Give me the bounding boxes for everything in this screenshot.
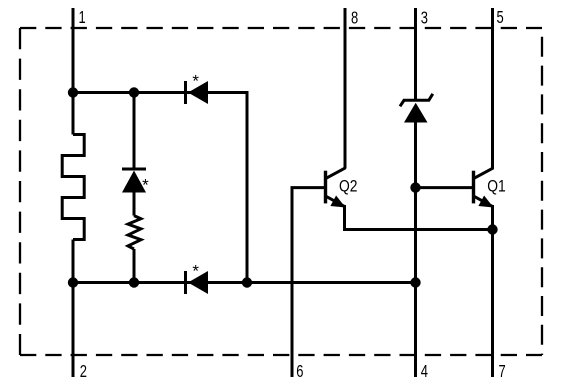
diode D3 (bottom, pointing left): [186, 271, 209, 294]
junction dot: middle branch/top bus: [129, 87, 139, 97]
transistor Q2: [326, 168, 346, 208]
pin 5 lead / Q1 collector: [491, 8, 494, 169]
wire: Q1 base to pin 3/4 line: [416, 186, 474, 189]
svg-text:1: 1: [79, 8, 86, 28]
pin 1 lead: [72, 8, 75, 135]
resistor (square-wave symbol, left branch): [62, 135, 84, 240]
diode D2 (pointing up): [122, 169, 146, 193]
junction dot: middle branch/bottom bus: [129, 277, 139, 287]
junction dot: right branch/bottom bus: [242, 277, 252, 287]
svg-text:3: 3: [421, 8, 428, 28]
zener diode (on pin 3 branch): [400, 94, 433, 123]
IC package boundary (dashed): [20, 28, 542, 355]
pin 2 lead: [72, 240, 75, 378]
junction dot: emitter bus/pin 7 line: [487, 224, 497, 234]
svg-text:2: 2: [80, 362, 87, 382]
junction dot: pin2/bottom bus: [68, 277, 78, 287]
wire: resistor to bottom bus: [133, 249, 136, 283]
svg-text:Q1: Q1: [487, 177, 505, 195]
svg-text:5: 5: [497, 8, 504, 28]
transistor Q1: [474, 168, 494, 208]
svg-text:*: *: [142, 176, 149, 195]
junction dot: pin1/top bus: [68, 87, 78, 97]
wire: Q2 emitter to Q1 emitter node: [345, 205, 493, 230]
svg-text:*: *: [192, 72, 199, 91]
svg-text:7: 7: [499, 362, 506, 382]
pin 3 lead: [414, 8, 417, 100]
wire: top bus from pin1 node to right branch, then down: [73, 93, 247, 283]
pin 8 lead / Q2 collector: [344, 8, 347, 169]
pin 4 lead: [414, 123, 417, 378]
resistor (zigzag, middle branch): [128, 216, 141, 249]
svg-text:*: *: [192, 262, 199, 281]
svg-text:6: 6: [296, 362, 303, 382]
wire: middle branch from top bus to diode D2: [133, 93, 136, 170]
svg-text:Q2: Q2: [339, 177, 357, 195]
pin 6 lead and wire to Q2 base: [292, 188, 326, 377]
wire: diode D2 to resistor: [133, 193, 136, 216]
pin 7 lead / Q1 emitter: [491, 205, 494, 377]
junction dot: Q1 base node on pin 3/4 line: [410, 182, 420, 192]
diode D1 (top, pointing left): [186, 81, 209, 104]
junction dot: bottom bus/pin 4 line: [410, 277, 420, 287]
wire: bottom bus: [73, 281, 416, 284]
svg-text:4: 4: [421, 362, 428, 382]
svg-text:8: 8: [351, 8, 358, 28]
